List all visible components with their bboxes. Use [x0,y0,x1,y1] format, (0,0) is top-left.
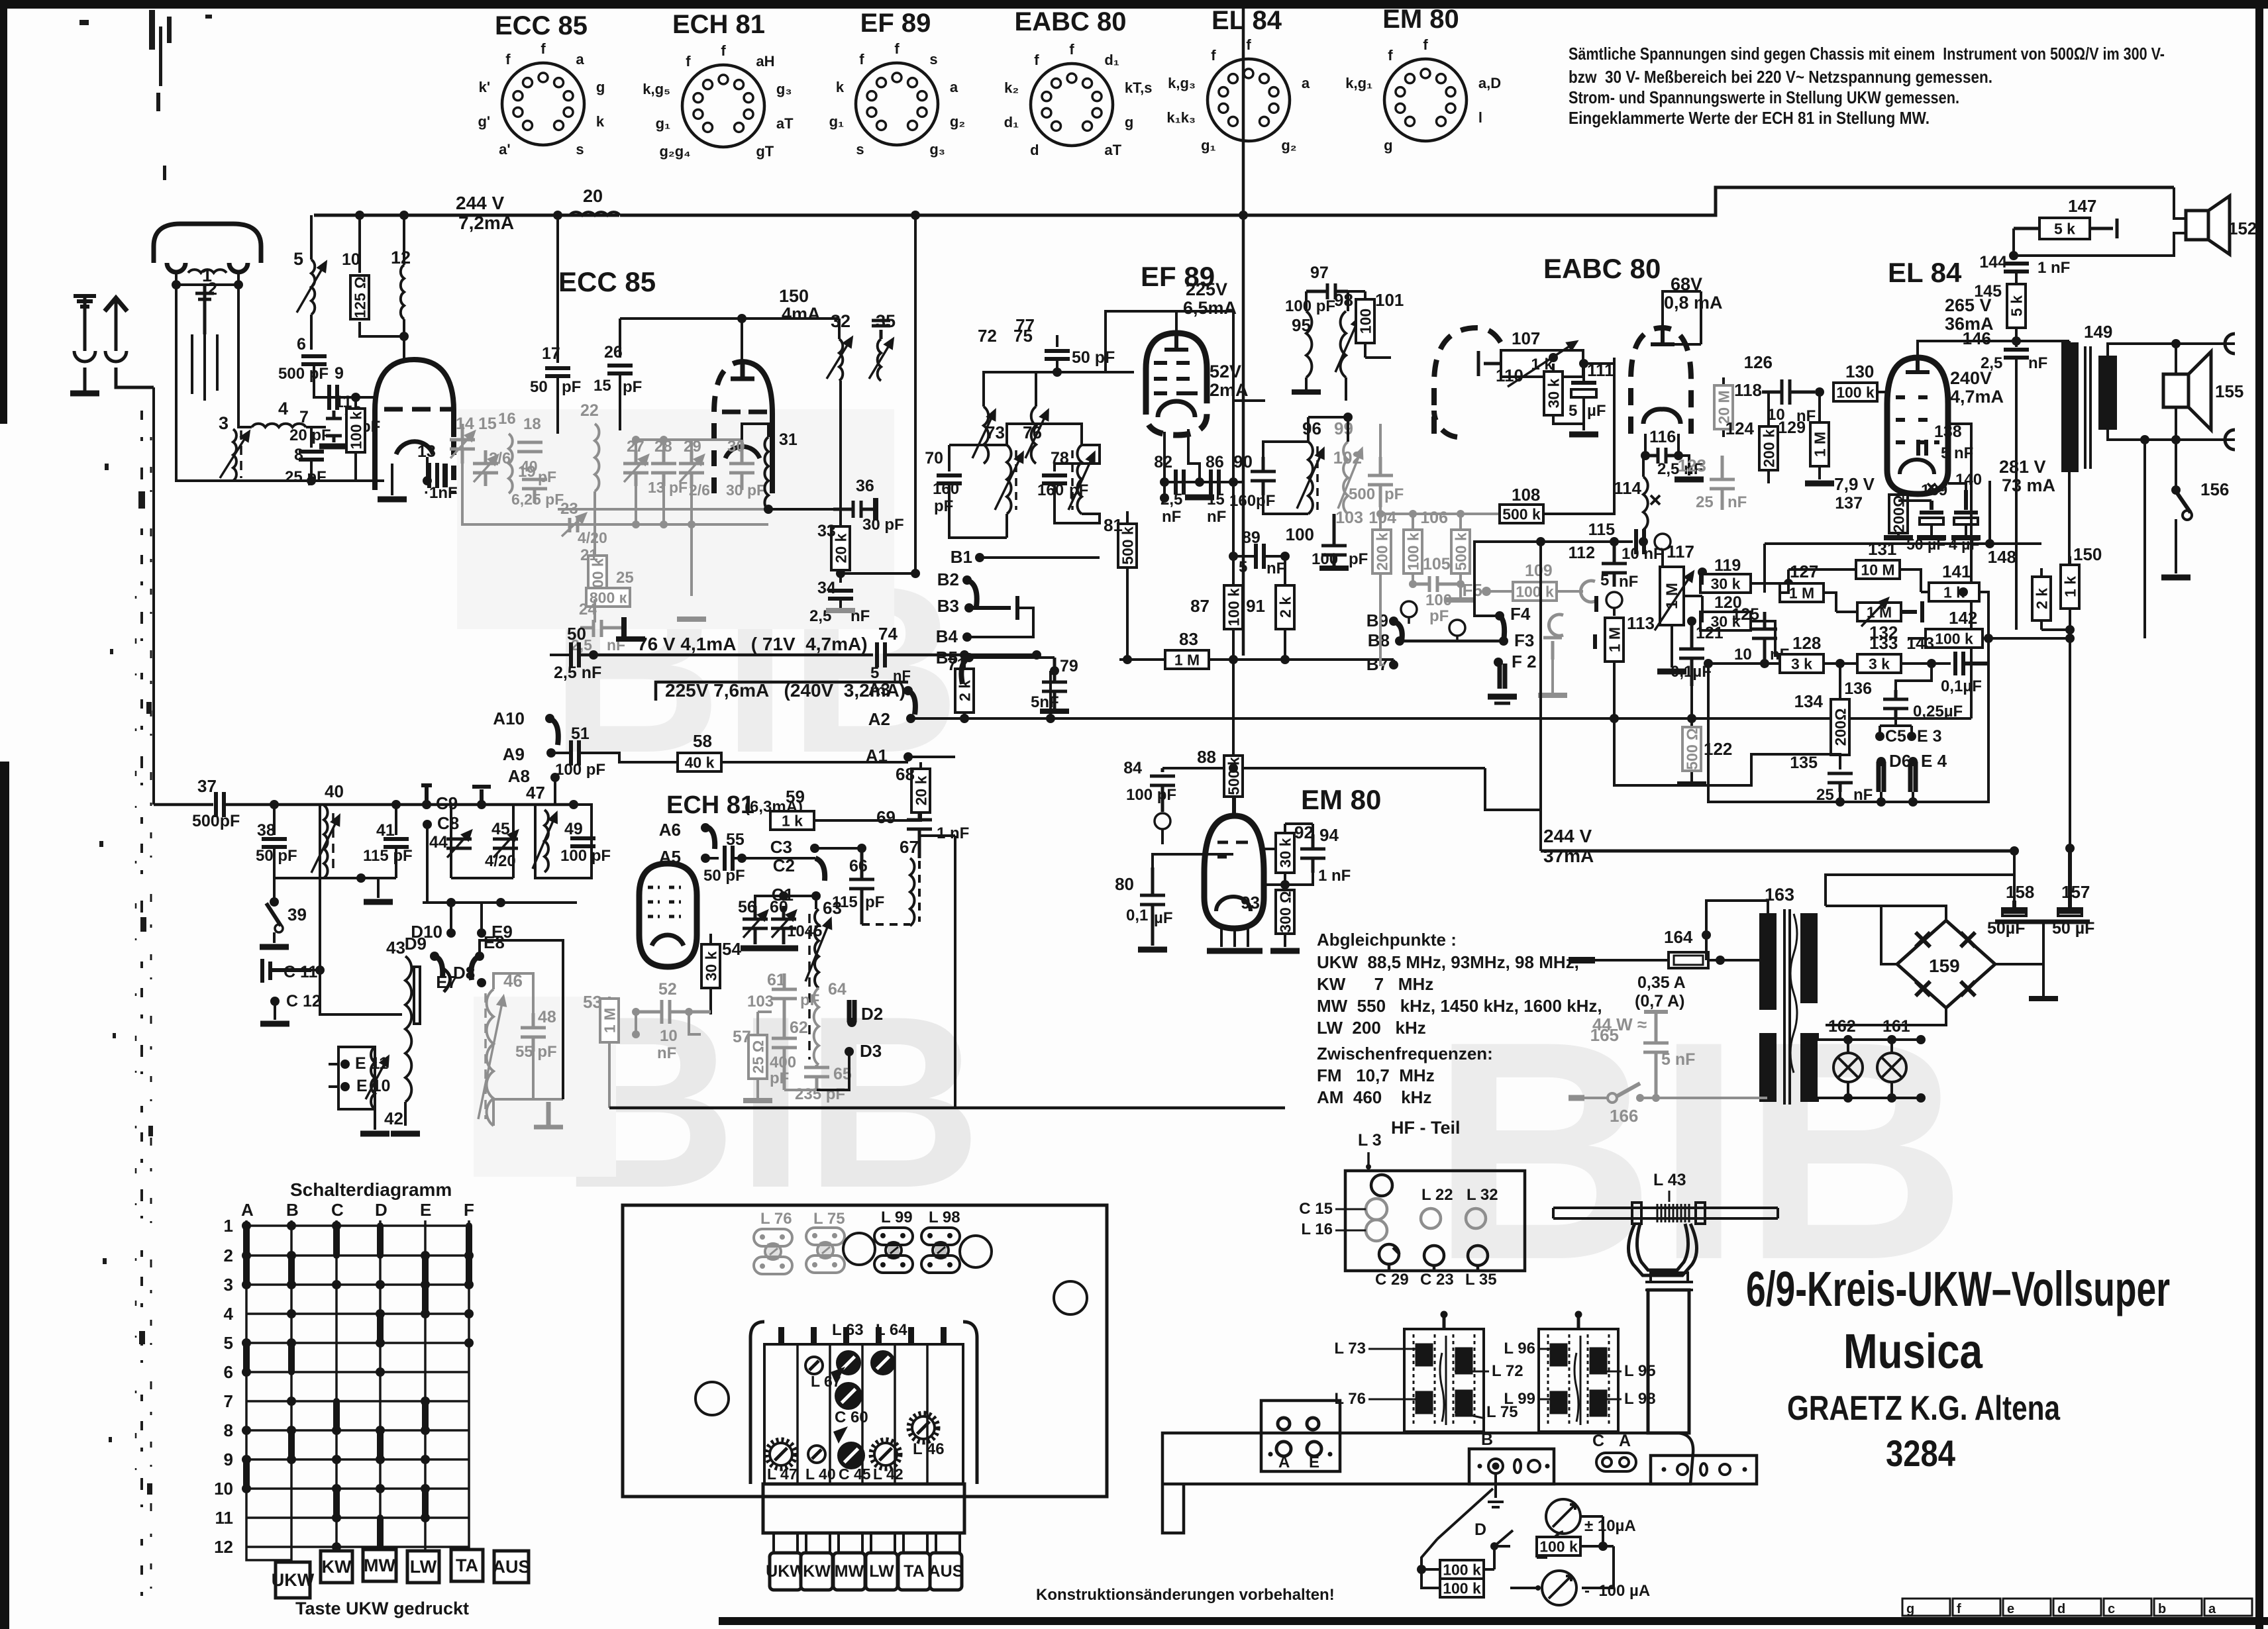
wire [885,654,1037,657]
svg-text:k₂: k₂ [1004,79,1019,96]
svg-text:k,g₅: k,g₅ [643,81,670,97]
svg-text:4,7mA: 4,7mA [1950,387,2004,407]
svg-text:61: 61 [767,971,786,989]
capacitor 146 (2,5nF) [2004,350,2029,358]
wire primary [2068,341,2071,565]
jack B9 [1401,601,1417,624]
switch unit body [764,1344,963,1484]
svg-text:100 k: 100 k [347,411,364,450]
svg-text:aT: aT [776,115,794,132]
capacitor 24 (2,5nF) [580,620,624,637]
svg-text:L 22: L 22 [1421,1186,1453,1204]
svg-text:1 k: 1 k [2061,576,2079,597]
node D3 [845,1047,854,1056]
resistor 100k (meter) [1440,1579,1484,1597]
resistor 53 (1M) [600,999,619,1042]
page bottom border [719,1617,2268,1625]
wire 281V [1770,874,2014,875]
wire [1232,311,1235,657]
resistor 54 [709,934,712,1014]
capacitor 126 (10nF) [1762,379,1815,405]
svg-text:160pF: 160pF [1229,492,1275,510]
svg-text:118: 118 [1734,380,1762,400]
svg-text:50 pF: 50 pF [703,867,745,885]
svg-text:45: 45 [491,820,510,838]
tube EM80 [1204,801,1264,928]
svg-text:f: f [859,51,864,68]
wire [838,319,841,339]
wire EF89 top [1106,311,1233,373]
wire [755,896,816,906]
svg-text:111: 111 [1587,360,1614,380]
svg-text:19: 19 [518,463,536,481]
tube socket diagram EF 89 [829,9,966,158]
gray ground [1538,693,1567,698]
meter circuit wires [1421,1539,1614,1588]
ground [1207,948,1236,954]
capacitor 143 (0,1uF) [1955,652,1988,675]
svg-text:2: 2 [207,279,217,299]
svg-text:2mA: 2mA [1210,380,1249,400]
resistor 33 (20k) [831,526,850,570]
capacitor 13 (1nF) [429,463,437,488]
leaders2 [1538,1349,1622,1399]
wire C1 [815,896,817,909]
gray dots [632,1008,693,1038]
cap34 ground lead [839,599,842,609]
oscillator box right [919,788,955,1108]
gray bus 102 [1380,424,1523,514]
svg-text:100 k: 100 k [1516,583,1554,600]
svg-text:26: 26 [604,343,623,362]
IF can 1 side view [1404,1311,1484,1432]
wire 148 bottom [2041,628,2070,631]
svg-text:g₃: g₃ [776,81,792,97]
svg-text:7: 7 [224,1391,233,1411]
resistor 141 (1k) [1929,583,1979,601]
resistor 120 (30k) [1700,612,1751,630]
wire [224,803,578,807]
svg-text:C: C [1592,1432,1604,1450]
svg-text:0,1µF: 0,1µF [1941,677,1982,695]
node A10 hook [550,718,558,745]
lamps 161/162 [1833,1040,1921,1098]
wire [374,1109,376,1130]
node [1639,537,1648,546]
coil 3 [233,429,236,481]
svg-text:Eingeklammerte Werte der ECH 8: Eingeklammerte Werte der ECH 81 in Stell… [1569,108,1930,128]
244V bus right [620,187,2174,215]
svg-text:bzw 30 V- Meßbereich bei 220: bzw 30 V- Meßbereich bei 220 V~ Netzspan… [1569,67,1992,87]
chassis top view outline [623,1205,1107,1497]
wire 157 down [1995,922,2043,964]
capacitor 105 gray [1413,576,1461,592]
tube EF89 [1146,333,1207,435]
svg-text:99: 99 [1334,419,1353,438]
node A8 wire [554,777,556,805]
ground [1185,495,1214,501]
resistor 88 leads [1232,768,1235,816]
svg-text:121: 121 [1696,624,1724,642]
tube EABC80 triode part [1631,328,1691,434]
scan noise blobs [99,464,153,1495]
gray wires 57 [758,1012,817,1098]
svg-text:136: 136 [1844,679,1872,698]
svg-text:125: 125 [1731,605,1759,624]
node C3 [810,844,819,853]
svg-text:a': a' [499,141,510,158]
capacitor 112 (5nF) [1602,542,1627,587]
wire 116 [1645,434,1689,475]
svg-text:F5: F5 [1463,580,1482,600]
svg-text:500 k: 500 k [1502,505,1541,522]
IF1 frame [1007,424,1082,445]
svg-text:400: 400 [770,1054,796,1071]
capacitor 49 (100pF) [570,838,595,846]
tube socket diagram EL 84 [1166,6,1310,154]
phone jack [1549,615,1563,636]
gray wires 46/48 [493,973,563,1126]
wire vertical from bus [914,215,917,573]
svg-text:150: 150 [779,286,809,306]
svg-text:244 V: 244 V [456,193,504,213]
switch 156 [2176,440,2192,573]
capacitor 123 (25nF) gray [1710,456,1735,510]
svg-text:5nF: 5nF [1031,693,1059,711]
svg-text:E: E [1309,1454,1319,1471]
chassis side bar [1162,1433,1693,1533]
svg-text:L 63: L 63 [832,1321,864,1339]
svg-text:B2: B2 [937,569,959,589]
ground [1805,481,1834,487]
svg-text:pF: pF [770,1069,789,1087]
svg-text:133: 133 [1869,633,1898,653]
wire bus EM80 right [1485,768,1541,810]
svg-text:34: 34 [817,579,836,597]
wire x3004 [1988,481,1991,544]
wire EL84 screen [1948,424,1971,718]
svg-text:GRAETZ K.G. Altena: GRAETZ K.G. Altena [1787,1389,2061,1428]
variable capacitor 29 [679,450,704,486]
svg-text:235 pF: 235 pF [795,1085,845,1103]
svg-text:4/20: 4/20 [485,852,516,870]
chassis bar [1995,920,2090,924]
svg-text:22: 22 [580,401,599,420]
svg-text:81: 81 [1104,515,1123,535]
wire [721,761,908,764]
wire E8 loop [480,940,563,1099]
capacitor 138 (5nF) [1898,450,1929,466]
svg-text:37mA: 37mA [1543,846,1594,866]
svg-text:E 4: E 4 [1921,751,1947,771]
ground [1270,948,1300,954]
svg-text:0,1: 0,1 [1126,907,1148,924]
svg-text:143: 143 [1906,634,1934,653]
svg-text:L 98: L 98 [929,1209,960,1226]
svg-text:87: 87 [1190,596,1210,616]
svg-text:AUS: AUS [492,1557,530,1577]
resistor 104 (100k) [1404,530,1422,573]
coil 67 [910,858,914,926]
x mark [1928,483,1935,491]
svg-text:e: e [2007,1602,2014,1616]
svg-text:C 23: C 23 [1420,1271,1454,1289]
svg-text:68: 68 [896,764,915,784]
svg-text:B3: B3 [937,596,959,616]
svg-text:MW 550 kHz, 1450 kHz, 1600: MW 550 kHz, 1450 kHz, 1600 kHz, [1317,996,1602,1016]
svg-text:94: 94 [1319,825,1339,845]
svg-text:130: 130 [1845,362,1874,381]
svg-text:10: 10 [342,250,360,269]
svg-text:21: 21 [580,546,598,564]
button TA [898,1553,930,1590]
svg-text:74: 74 [878,624,898,644]
svg-text:5: 5 [293,249,303,269]
svg-text:KW: KW [322,1557,352,1577]
svg-text:L 35: L 35 [1465,1271,1497,1289]
resistor 87 (100k) [1224,585,1243,629]
svg-text:C 11: C 11 [283,963,318,981]
adjust point L99 [874,1228,913,1273]
svg-text:141: 141 [1942,562,1971,581]
screened gray area UKW oscillator [457,409,894,629]
wire [619,373,621,430]
svg-text:A9: A9 [503,744,525,764]
svg-text:L 40: L 40 [805,1465,836,1483]
svg-text:Strom- und Spannungswerte in S: Strom- und Spannungswerte in Stellung UK… [1569,87,1959,107]
svg-text:B: B [286,1200,299,1220]
tube ECH81 [639,864,697,967]
wire spk152 [2014,187,2208,256]
gray module frame [462,434,558,524]
ground stub [377,878,380,898]
svg-text:d₁: d₁ [1104,52,1119,68]
111 ground [1582,424,1585,430]
capacitor 157 (50uF) [2058,848,2082,916]
svg-text:4/20: 4/20 [578,529,607,546]
scan noise top smudge [79,10,212,180]
svg-text:LW: LW [869,1562,894,1581]
coil 40 dashes [332,813,335,871]
svg-text:114: 114 [1614,478,1641,498]
svg-text:161: 161 [1882,1017,1910,1036]
svg-text:g₃: g₃ [929,141,945,158]
gray wire [1551,660,1554,695]
coil 75 [1031,407,1036,464]
svg-text:g₁: g₁ [1201,137,1216,154]
node D meter [1490,1542,1498,1550]
wire 81 bottom [1126,601,1129,660]
svg-text:d: d [1030,142,1039,158]
resistor 103 (200k) [1372,530,1391,573]
capacitor 94 (1nF) [1300,834,1325,873]
wire [310,215,313,350]
svg-text:ECC 85: ECC 85 [495,11,588,40]
svg-text:f: f [505,51,511,68]
svg-text:s: s [576,141,584,158]
node D6 [1879,762,1884,792]
svg-text:- 100 µA: - 100 µA [1584,1582,1650,1600]
svg-text:135: 135 [1790,754,1818,772]
svg-text:g': g' [478,113,490,130]
capacitor 51 (100pF) [571,740,579,765]
svg-text:k: k [836,79,845,95]
svg-text:f: f [1388,47,1393,64]
ground [873,498,878,520]
tube socket diagram EM 80 [1345,5,1501,154]
svg-text:8: 8 [224,1420,233,1440]
node B7 [1389,660,1398,669]
node A6 [705,826,715,849]
variable capacitor 15 [473,450,498,486]
wire cath to caps [1898,483,1966,501]
resistor 133 (3k) [1857,654,1901,673]
svg-text:93: 93 [1241,893,1260,913]
svg-text:Musica: Musica [1843,1324,1983,1379]
coil 22 [595,424,599,491]
anode lead [426,457,429,481]
svg-text:76 V 4,1mA ( 71V 4,7mA): 76 V 4,1mA ( 71V 4,7mA) [637,634,868,654]
svg-text:158: 158 [2006,882,2034,902]
bus 244V right [1541,850,2014,853]
svg-text:147: 147 [2068,196,2096,216]
pot 107 (1k) [1501,350,1583,377]
svg-text:57: 57 [733,1028,751,1046]
button LW [866,1553,898,1590]
svg-text:30 k: 30 k [1545,378,1562,408]
svg-text:63: 63 [823,898,842,918]
capacitor 90 (160pF) [1251,457,1276,495]
tube socket diagram EABC 80 [1004,7,1153,158]
svg-text:53: 53 [583,992,602,1012]
svg-text:44: 44 [429,833,448,852]
wire [405,940,435,956]
svg-text:s: s [929,51,937,68]
resistor 118 (20M) [1714,385,1733,429]
svg-text:14: 14 [456,415,474,433]
svg-text:pF: pF [865,893,884,911]
svg-text:E7: E7 [436,972,457,992]
svg-text:116: 116 [1649,428,1676,446]
svg-text:D3: D3 [860,1041,882,1061]
wire sec2 [1816,1033,1819,1102]
ground [364,899,393,905]
svg-text:50: 50 [567,624,586,644]
capacitor 116 (2,5nF) [1645,448,1678,464]
coil 73 [1007,445,1011,514]
svg-text:11: 11 [335,393,352,411]
node F2 [1500,664,1505,689]
phone jack 112 [1606,592,1622,615]
svg-text:C8: C8 [437,813,459,833]
wire 101 [1348,291,1391,358]
resistor 134 leads [1839,664,1841,769]
gray stub [595,524,692,622]
svg-text:50: 50 [530,378,548,396]
wire 113 down [1613,662,1616,718]
svg-text:6: 6 [297,335,306,354]
wire 95 bottom [1306,377,1346,401]
wire B5-A2 [1051,669,1055,672]
capacitor 41 (115pF) [384,839,409,847]
wire y821 [1765,544,2041,593]
wire 111 [1582,364,1585,424]
capacitor 9 (30pF) [329,385,337,410]
svg-text:k': k' [479,79,490,95]
page left border lower [0,762,9,1629]
svg-text:103: 103 [1335,509,1363,527]
wire B7 [1380,591,1394,665]
svg-text:C2: C2 [773,856,795,875]
wire EABC right [1663,291,1701,344]
svg-text:E8: E8 [484,932,505,952]
svg-text:1 M: 1 M [1174,651,1200,668]
resistor 147 (5k) [2039,218,2090,239]
svg-text:1 M: 1 M [1789,584,1814,601]
wire [176,424,233,481]
capacitor 111 (5uF) [1571,383,1596,397]
svg-text:7: 7 [299,408,309,426]
svg-text:66: 66 [849,857,868,875]
svg-text:pF: pF [1069,481,1088,499]
svg-text:108: 108 [1512,485,1540,505]
svg-text:F4: F4 [1510,604,1531,624]
svg-text:L 64: L 64 [876,1321,907,1339]
wire 125 top [1749,593,1780,612]
svg-text:144: 144 [1979,253,2007,271]
svg-text:3 k: 3 k [1869,655,1890,672]
svg-text:126: 126 [1744,352,1773,372]
svg-text:100 k: 100 k [1443,1561,1481,1578]
svg-text:1 k: 1 k [782,812,803,829]
svg-text:A1: A1 [866,746,888,765]
Abgleichpunkte block [1317,930,1602,1107]
svg-text:10 M: 10 M [1861,561,1894,578]
wire fuse down [1639,962,1641,987]
svg-text:15: 15 [593,377,611,395]
wire 114 [1642,456,1645,542]
resistor 110 leads [1553,364,1584,424]
svg-text:159: 159 [1929,956,1960,976]
resistor 101 leads [1364,291,1366,358]
svg-text:30 pF: 30 pF [726,481,766,499]
svg-text:40: 40 [325,781,344,801]
svg-text:25 Ω: 25 Ω [749,1040,766,1073]
svg-text:56: 56 [738,898,756,916]
capacitor 8 (25pF) [299,452,324,460]
wire 244V feed [1539,542,1542,851]
svg-text:0,8 mA: 0,8 mA [1664,293,1723,313]
svg-text:52: 52 [658,980,677,999]
wire bridge [1826,906,2043,1025]
resistor 57 (25 ohm) [748,1035,767,1079]
svg-text:KW: KW [803,1562,831,1581]
wire spk152b [2014,187,2186,256]
svg-text:140: 140 [1955,471,1982,489]
svg-text:1 M: 1 M [601,1008,618,1033]
svg-text:200Ω: 200Ω [1831,709,1849,746]
capacitor 139 (50uF) [1920,501,1943,536]
bus y996 right [1210,660,1394,665]
ground [319,444,348,450]
node B9 [1389,617,1398,626]
wire B4 [967,608,1033,637]
svg-text:a: a [950,79,958,95]
wire [1880,724,1912,727]
variable capacitor 27 [623,450,648,486]
svg-text:68V: 68V [1671,274,1702,294]
svg-text:g: g [1906,1602,1914,1616]
